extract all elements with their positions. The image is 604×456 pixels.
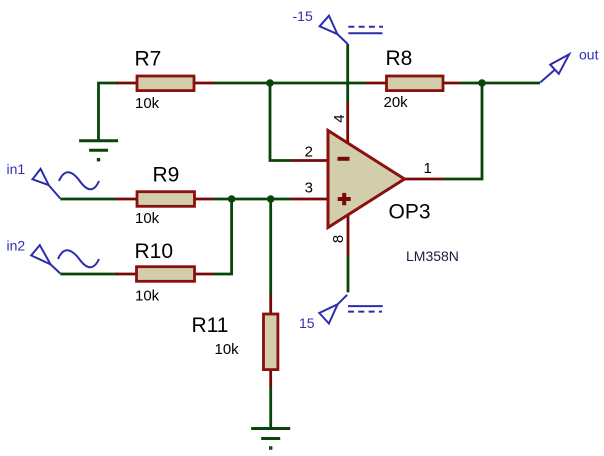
svg-text:R11: R11	[192, 314, 229, 337]
svg-text:R9: R9	[153, 164, 180, 187]
svg-text:R10: R10	[135, 240, 174, 263]
svg-text:LM358N: LM358N	[406, 248, 459, 264]
pin 4 lead	[346, 103, 349, 144]
wire	[269, 199, 272, 296]
wire	[270, 83, 292, 161]
svg-text:OP3: OP3	[389, 201, 431, 224]
svg-text:R8: R8	[386, 47, 413, 70]
svg-text:10k: 10k	[215, 341, 240, 358]
svg-text:R7: R7	[135, 48, 162, 71]
svg-text:20k: 20k	[384, 94, 409, 111]
svg-text:15: 15	[299, 315, 315, 331]
op-amp OP3 pin leads	[291, 103, 444, 256]
pin 3 lead	[291, 198, 328, 201]
svg-text:10k: 10k	[135, 95, 160, 112]
plus symbol	[338, 197, 351, 201]
svg-text:8: 8	[330, 235, 347, 243]
input terminal in1	[33, 169, 100, 199]
svg-text:4: 4	[331, 114, 348, 122]
pin 8 lead	[347, 215, 350, 256]
junction dot A	[266, 79, 274, 87]
ground 1	[79, 141, 118, 162]
op-amp OP3 body	[328, 131, 405, 228]
resistor R11	[192, 295, 278, 387]
wire	[213, 199, 232, 274]
wire	[214, 82, 366, 85]
svg-text:-15: -15	[293, 8, 313, 24]
wire	[461, 82, 541, 85]
svg-text:10k: 10k	[135, 210, 160, 227]
output terminal out	[540, 54, 569, 82]
svg-text:1: 1	[424, 160, 432, 177]
svg-text:3: 3	[305, 180, 313, 197]
resistor R10	[116, 240, 214, 305]
svg-text:in1: in1	[7, 161, 26, 177]
ground 2	[251, 429, 290, 450]
wire	[347, 256, 350, 293]
svg-text:in2: in2	[7, 238, 26, 254]
wire	[346, 44, 349, 103]
pin 2 lead	[291, 159, 328, 162]
junction dot C	[228, 195, 236, 203]
resistor R9	[116, 164, 214, 228]
sine symbol	[58, 250, 99, 267]
svg-text:out: out	[579, 47, 599, 63]
power terminal -15	[320, 16, 383, 44]
resistor R8	[366, 47, 461, 111]
junction dot D	[267, 195, 275, 203]
power terminal 15	[319, 295, 383, 324]
pin 1 lead	[404, 178, 444, 181]
sine symbol	[59, 172, 99, 189]
resistor R7	[116, 48, 215, 113]
minus symbol	[338, 157, 350, 161]
wire	[60, 273, 117, 276]
wire	[444, 83, 483, 179]
wire	[99, 83, 118, 140]
wire	[269, 386, 272, 428]
junction dot B	[478, 79, 486, 87]
svg-text:2: 2	[305, 144, 313, 161]
input terminal in2	[31, 245, 99, 273]
wire	[213, 198, 292, 201]
svg-text:10k: 10k	[135, 288, 160, 305]
wire	[60, 198, 117, 201]
